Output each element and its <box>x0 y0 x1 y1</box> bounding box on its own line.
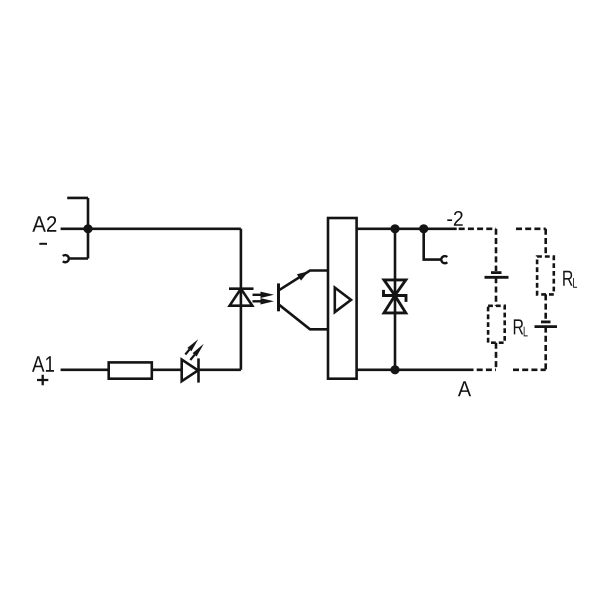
wire dashed bottom load 2 <box>513 368 546 371</box>
terminal clamp -2 <box>424 229 448 263</box>
terminal clamp A2 <box>63 198 88 262</box>
node A2 junction <box>83 224 92 233</box>
label RL2 <box>563 271 572 286</box>
wire dashed battery2 to bottom <box>544 327 547 370</box>
label A1 <box>32 356 54 371</box>
wire dashed top to load 2 <box>516 228 546 231</box>
wire dashed load 1 upper vertical <box>495 229 498 271</box>
phototransistor Q1 <box>279 271 329 330</box>
wire U1 output top rail <box>357 228 457 231</box>
wire A1 <box>61 368 109 371</box>
wire U1 output bottom rail <box>357 368 468 371</box>
wire dashed battery1 to RL1 <box>495 277 498 306</box>
wire dashed top to load 1 <box>459 228 496 231</box>
optocoupler light arrows <box>253 292 275 305</box>
resistor RL2 load <box>537 257 554 295</box>
TVS suppressor V1 vertical wire <box>394 229 397 370</box>
LED D1 indicator <box>182 358 199 382</box>
LED D1 light arrows <box>185 339 204 360</box>
wire resistor to LED <box>152 368 182 371</box>
node TVS bottom <box>390 365 399 374</box>
battery B2 <box>535 322 558 327</box>
label RL1 subscript <box>524 327 528 337</box>
node -2 junction <box>419 224 428 233</box>
label RL2 subscript <box>573 278 577 288</box>
wire A2 top rail <box>61 228 241 231</box>
battery B1 <box>485 273 509 278</box>
label -2 <box>447 211 462 226</box>
wire optocoupler input vertical <box>240 229 243 370</box>
resistor R1 <box>109 362 152 378</box>
wire dashed RL2 to battery2 <box>544 294 547 320</box>
phototransistor emitter arrow <box>297 271 309 280</box>
label A2 <box>32 216 56 232</box>
driver U1 box <box>328 218 357 379</box>
label minus <box>39 243 47 245</box>
label plus <box>37 375 48 386</box>
TVS suppressor V1 <box>384 280 407 313</box>
node TVS top <box>390 224 399 233</box>
optocoupler LED D2 <box>229 289 254 306</box>
label RL1 <box>514 319 523 334</box>
wire LED to vertical <box>199 368 241 371</box>
amplifier triangle U1 <box>335 288 351 313</box>
resistor RL1 load <box>488 306 505 343</box>
wire dashed load 2 upper vertical <box>544 229 547 257</box>
wire dashed RL1 to bottom <box>495 343 498 370</box>
wire dashed bottom to load 1 <box>468 368 497 371</box>
label A <box>458 381 471 396</box>
